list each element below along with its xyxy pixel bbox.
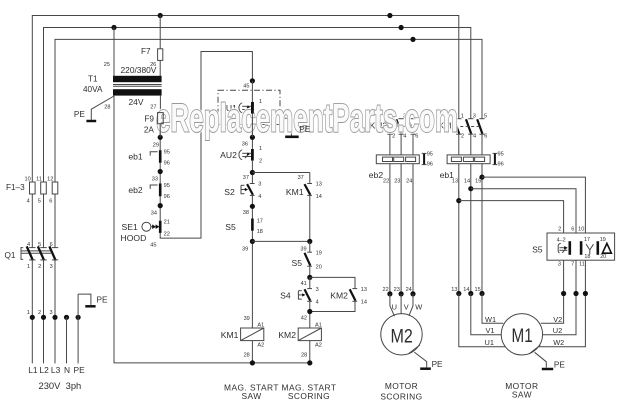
svg-text:14: 14 [463,287,469,293]
terminal dots (M1 right) [561,291,566,296]
svg-text:PE: PE [432,360,443,369]
svg-text:34: 34 [151,211,157,217]
svg-text:5: 5 [484,114,487,120]
svg-text:10: 10 [24,176,30,182]
wire node37 to KM1 aux branch [252,172,309,174]
svg-text:20: 20 [316,265,322,271]
svg-text:96: 96 [164,160,170,166]
svg-text:KM2: KM2 [278,330,296,340]
svg-text:HOOD: HOOD [121,233,147,243]
overload relay eb2 (main) [376,155,419,164]
svg-text:42: 42 [301,316,307,322]
svg-text:12: 12 [47,176,53,182]
svg-text:AU2: AU2 [220,150,237,160]
svg-text:24: 24 [406,287,412,293]
wire KM1 poles to eb1 [458,134,460,155]
wire M1 lead V1 [471,294,502,335]
fuse F9 + wire net-27 [159,96,161,113]
wire S5 out 11 to motor M1 W2 [539,260,586,347]
svg-text:45: 45 [243,83,249,89]
motor M1 [501,314,542,355]
terminal dots 13 14 15 (M1 left) [456,291,461,296]
junction dot node14 + wire to S5 terminal 6 [468,186,473,191]
junction dot node 39 (branch) [307,239,312,244]
svg-text:SCORING: SCORING [288,391,330,401]
svg-text:22: 22 [164,231,170,237]
junction dot node 38 [250,204,255,209]
svg-text:7: 7 [571,262,574,268]
junction dot rail2/KM2 pole 3 [399,25,404,30]
svg-text:23: 23 [394,287,400,293]
svg-text:A1: A1 [257,323,264,329]
svg-text:1: 1 [259,146,262,152]
svg-text:5: 5 [38,242,41,248]
svg-text:V: V [404,303,409,312]
svg-text:3: 3 [316,287,319,293]
wire L1 fuse to Q1 [31,194,33,247]
svg-text:41: 41 [301,281,307,287]
svg-text:SAW: SAW [512,390,532,400]
junction dot rail2/transformer primary [111,25,116,30]
svg-text:14: 14 [361,300,367,306]
svg-text:28: 28 [244,353,250,359]
svg-text:W1: W1 [485,315,496,324]
wire KM2 poles to eb2 [389,134,391,155]
wire eb2 to SE1 [159,196,161,220]
wire eb1 to eb2 [159,163,161,184]
svg-text:S2: S2 [224,187,235,197]
terminal dots 22 23 24 (M2) [387,291,392,296]
svg-text:33: 33 [152,176,158,182]
svg-text:25: 25 [104,62,110,68]
wire eb1 outputs down to M1 terminal dots [458,164,460,294]
ground PE (motor M2) [409,345,420,354]
terminal dot PE + stub [76,315,81,320]
junction dot rail1/F7 branch [158,13,163,18]
svg-text:23: 23 [394,178,400,184]
svg-text:6: 6 [571,226,574,232]
svg-text:28: 28 [104,105,110,111]
svg-text:95: 95 [164,183,170,189]
svg-text:PE: PE [97,296,108,305]
ground PE (motor M1) [529,345,540,354]
overload contact eb1 (control circuit) [159,150,162,163]
svg-text:A1: A1 [315,323,322,329]
svg-text:36: 36 [242,142,248,148]
svg-text:4: 4 [258,194,261,200]
svg-text:11: 11 [36,176,42,182]
svg-text:95: 95 [498,152,504,158]
svg-text:KM1: KM1 [221,330,239,340]
ground PE (incoming supply) [78,294,91,305]
switch contact S5 (17-18) [251,219,254,231]
svg-text:28: 28 [301,353,307,359]
svg-text:20: 20 [600,254,606,260]
enclosure box (dash-dot) around AU1 [218,90,280,124]
svg-text:SAW: SAW [241,391,261,401]
plug/sensor AU1 contact repaint over watermark [251,102,254,114]
svg-text:96: 96 [427,162,433,168]
wire node 39 down to KM1 coil [251,231,253,328]
svg-text:V2: V2 [553,315,562,324]
fuse F7 + branch wire [159,16,161,49]
junction dot node 36 [250,135,255,140]
contactor coil KM2 [298,328,321,341]
junction dot node 33 [158,169,163,174]
svg-text:39: 39 [244,316,250,322]
svg-text:2: 2 [461,133,464,139]
wire node39 to branch [252,240,309,242]
junction dot node 39 (main) [250,239,255,244]
svg-text:37: 37 [298,175,304,181]
wire net-45: SE1 down, right, up, over to AU1 [160,52,252,239]
svg-text:38: 38 [243,210,249,216]
junction dot node 41 [307,275,312,280]
svg-text:SCORING: SCORING [380,391,422,401]
svg-text:22: 22 [383,178,389,184]
svg-text:13: 13 [316,182,322,188]
terminal dot L1 [30,315,35,320]
svg-text:3: 3 [49,310,52,316]
wire S5 out 3 to motor M1 V2 [541,260,564,323]
svg-text:1: 1 [27,310,30,316]
svg-text:3: 3 [50,264,53,270]
svg-text:2A: 2A [144,126,155,135]
svg-text:F7: F7 [141,47,151,56]
svg-text:W: W [415,303,422,312]
wire L3 fuse to Q1 [54,194,56,247]
switch contact S5 NC (19-20) [309,241,311,252]
svg-text:2: 2 [259,158,262,164]
svg-text:95: 95 [164,150,170,156]
svg-text:24: 24 [406,178,412,184]
terminal dot L3 [52,315,57,320]
junction dot rail1/KM2 pole 1 [387,13,392,18]
svg-text:4: 4 [316,300,319,306]
svg-text:39: 39 [300,246,306,252]
wire S5 out 7 to motor M1 U2 [543,260,576,335]
junction dot node 37 [250,170,255,175]
wire net-28: secondary left down + control bottom rail [114,96,310,363]
wire M1 lead W1 [482,294,503,324]
terminal dot N + stub [64,315,69,320]
wire transformer primary left (25) [113,28,115,77]
switch SE1 HOOD interlock [142,222,151,231]
svg-text:5: 5 [38,199,41,205]
svg-text:3: 3 [473,114,476,120]
svg-text:13: 13 [451,287,457,293]
overload relay eb1 (main) [447,155,490,164]
switch Q1 pole 2 [40,247,46,249]
fuse F2 (pole 2) [41,182,47,194]
svg-text:11: 11 [579,262,585,268]
svg-text:L1: L1 [28,365,38,375]
ground PE (transformer secondary) [91,96,114,120]
fuse F3 (pole 3) [52,182,58,194]
svg-text:PE: PE [554,360,565,369]
svg-text:U: U [392,303,397,312]
svg-text:22: 22 [382,287,388,293]
svg-text:37: 37 [243,175,249,181]
pushbutton S4 [309,277,311,288]
overload contact eb2 (control circuit) [159,184,162,197]
svg-text:95: 95 [427,152,433,158]
svg-text:6: 6 [50,242,53,248]
svg-text:39: 39 [242,246,248,252]
svg-text:T1: T1 [88,74,98,83]
svg-text:1: 1 [27,264,30,270]
wire phase-L1 rail: terminal L1 up, top rail, down to KM1 pole 1 [32,16,459,182]
svg-text:14: 14 [316,194,322,200]
svg-text:eb1: eb1 [128,152,143,162]
svg-text:A2: A2 [315,342,322,348]
wire M2 leads U V W [390,294,395,316]
motor M2 [381,314,422,355]
svg-text:3: 3 [558,262,561,268]
svg-text:17: 17 [584,237,590,243]
svg-text:17: 17 [257,218,263,224]
junction dot node 42 [307,309,312,314]
svg-text:6: 6 [49,199,52,205]
plug/sensor AU1 [251,81,253,102]
svg-text:19: 19 [600,237,606,243]
wire Q1 pole1 to terminal L1 [31,260,33,364]
svg-text:2: 2 [38,310,41,316]
junction dot node 29 [158,135,163,140]
svg-text:F1–3: F1–3 [6,183,25,192]
pushbutton S2 [250,183,255,185]
terminal dot L2 [41,315,46,320]
svg-text:21: 21 [164,219,170,225]
svg-text:N: N [64,365,70,375]
svg-text:18: 18 [257,229,263,235]
switch S5 star-delta box [547,233,615,260]
svg-text:13: 13 [452,178,458,184]
junction dot node13 + wire to S5 terminal 2 [456,198,461,203]
svg-text:PE: PE [299,125,310,134]
svg-text:40VA: 40VA [83,85,103,94]
switch Q1 pole 3 [52,247,58,249]
svg-text:3: 3 [258,182,261,188]
svg-text:SE1: SE1 [122,222,138,232]
transformer T1 core lines [113,84,162,86]
svg-text:S4: S4 [280,291,291,301]
svg-text:2: 2 [558,226,561,232]
svg-text:220/380V: 220/380V [121,65,157,75]
svg-text:KM1: KM1 [286,187,304,197]
svg-text:96: 96 [498,162,504,168]
fuse F9 repaint over watermark [158,113,164,124]
junction dot node15 + wire to S5 terminal 10 [479,175,484,180]
svg-text:F9: F9 [144,114,154,123]
wire Q1 pole2 to terminal L2 [43,260,45,364]
svg-text:24V: 24V [129,97,144,107]
svg-text:M2: M2 [391,327,413,348]
svg-text:4–2: 4–2 [557,238,566,244]
junction dot rail3/KM2 pole 5 [410,37,415,42]
svg-text:Q1: Q1 [5,251,16,260]
svg-text:L2: L2 [39,365,49,375]
plug/sensor AU2 [239,150,242,160]
svg-text:U1: U1 [485,338,494,347]
svg-text:15: 15 [474,287,480,293]
switch Q1 linkage bracket [21,248,23,260]
svg-text:45: 45 [150,243,156,249]
svg-text:MOTOR: MOTOR [385,381,418,391]
switch S5 contact 3 (delta, 19-20) [596,241,599,255]
svg-text:PE: PE [74,365,86,375]
junction dot bottom-rail/KM2 coil [307,360,312,365]
svg-text:230V 3ph: 230V 3ph [39,380,82,391]
svg-text:29: 29 [153,142,159,148]
fuse F1 (pole 1) [30,182,36,194]
svg-text:S5: S5 [291,258,302,268]
switch S5 contact 2 (wye, 17-18) [580,241,583,255]
svg-text:10: 10 [578,226,584,232]
svg-text:eb2: eb2 [128,185,143,195]
switch Q1 pole 1 [29,247,35,249]
svg-text:S5: S5 [532,245,543,255]
svg-text:13: 13 [361,287,367,293]
svg-text:U2: U2 [553,326,562,335]
svg-text:15: 15 [475,178,481,184]
svg-text:96: 96 [164,194,170,200]
junction dot node 34 [158,203,163,208]
aux contact KM1 (13-14) [309,173,311,184]
transformer T1 primary winding bar [113,76,162,82]
svg-text:A2: A2 [257,342,264,348]
wire phase-L3 rail: terminal L3 up, third rail, down to KM1 pole 5 [55,39,482,182]
junction dot bottom-rail/KM1 coil [250,360,255,365]
svg-text:19: 19 [316,250,322,256]
svg-text:18: 18 [584,254,590,260]
transformer T1 secondary winding bar [113,89,162,95]
aux contact KM2 NC (13-14) parallel branch [310,277,355,288]
wire M1 lead U1 [459,294,506,347]
svg-text:4: 4 [473,133,476,139]
svg-text:M1: M1 [512,326,533,347]
wire eb2 to motor M2 terminals [389,164,391,294]
svg-text:L3: L3 [51,365,61,375]
svg-text:14: 14 [464,178,470,184]
svg-text:W2: W2 [553,338,564,347]
svg-text:1: 1 [461,114,464,120]
wire phase-L2 rail: terminal L2 up, second rail, down to KM1 pole 3 [44,28,471,182]
svg-text:KM2: KM2 [330,291,348,301]
svg-text:2: 2 [38,264,41,270]
junction dot node 45 [250,78,255,83]
svg-text:6: 6 [484,133,487,139]
svg-text:4: 4 [27,242,30,248]
ground PE (AU1 enclosure) [280,118,291,135]
svg-text:V1: V1 [486,326,495,335]
svg-text:S5: S5 [225,222,236,232]
svg-text:4: 4 [27,199,30,205]
svg-text:eb2: eb2 [369,170,384,180]
wire L2 fuse to Q1 [43,194,45,247]
wire Q1 pole3 to terminal L3 [54,260,56,364]
svg-text:PE: PE [74,110,85,119]
